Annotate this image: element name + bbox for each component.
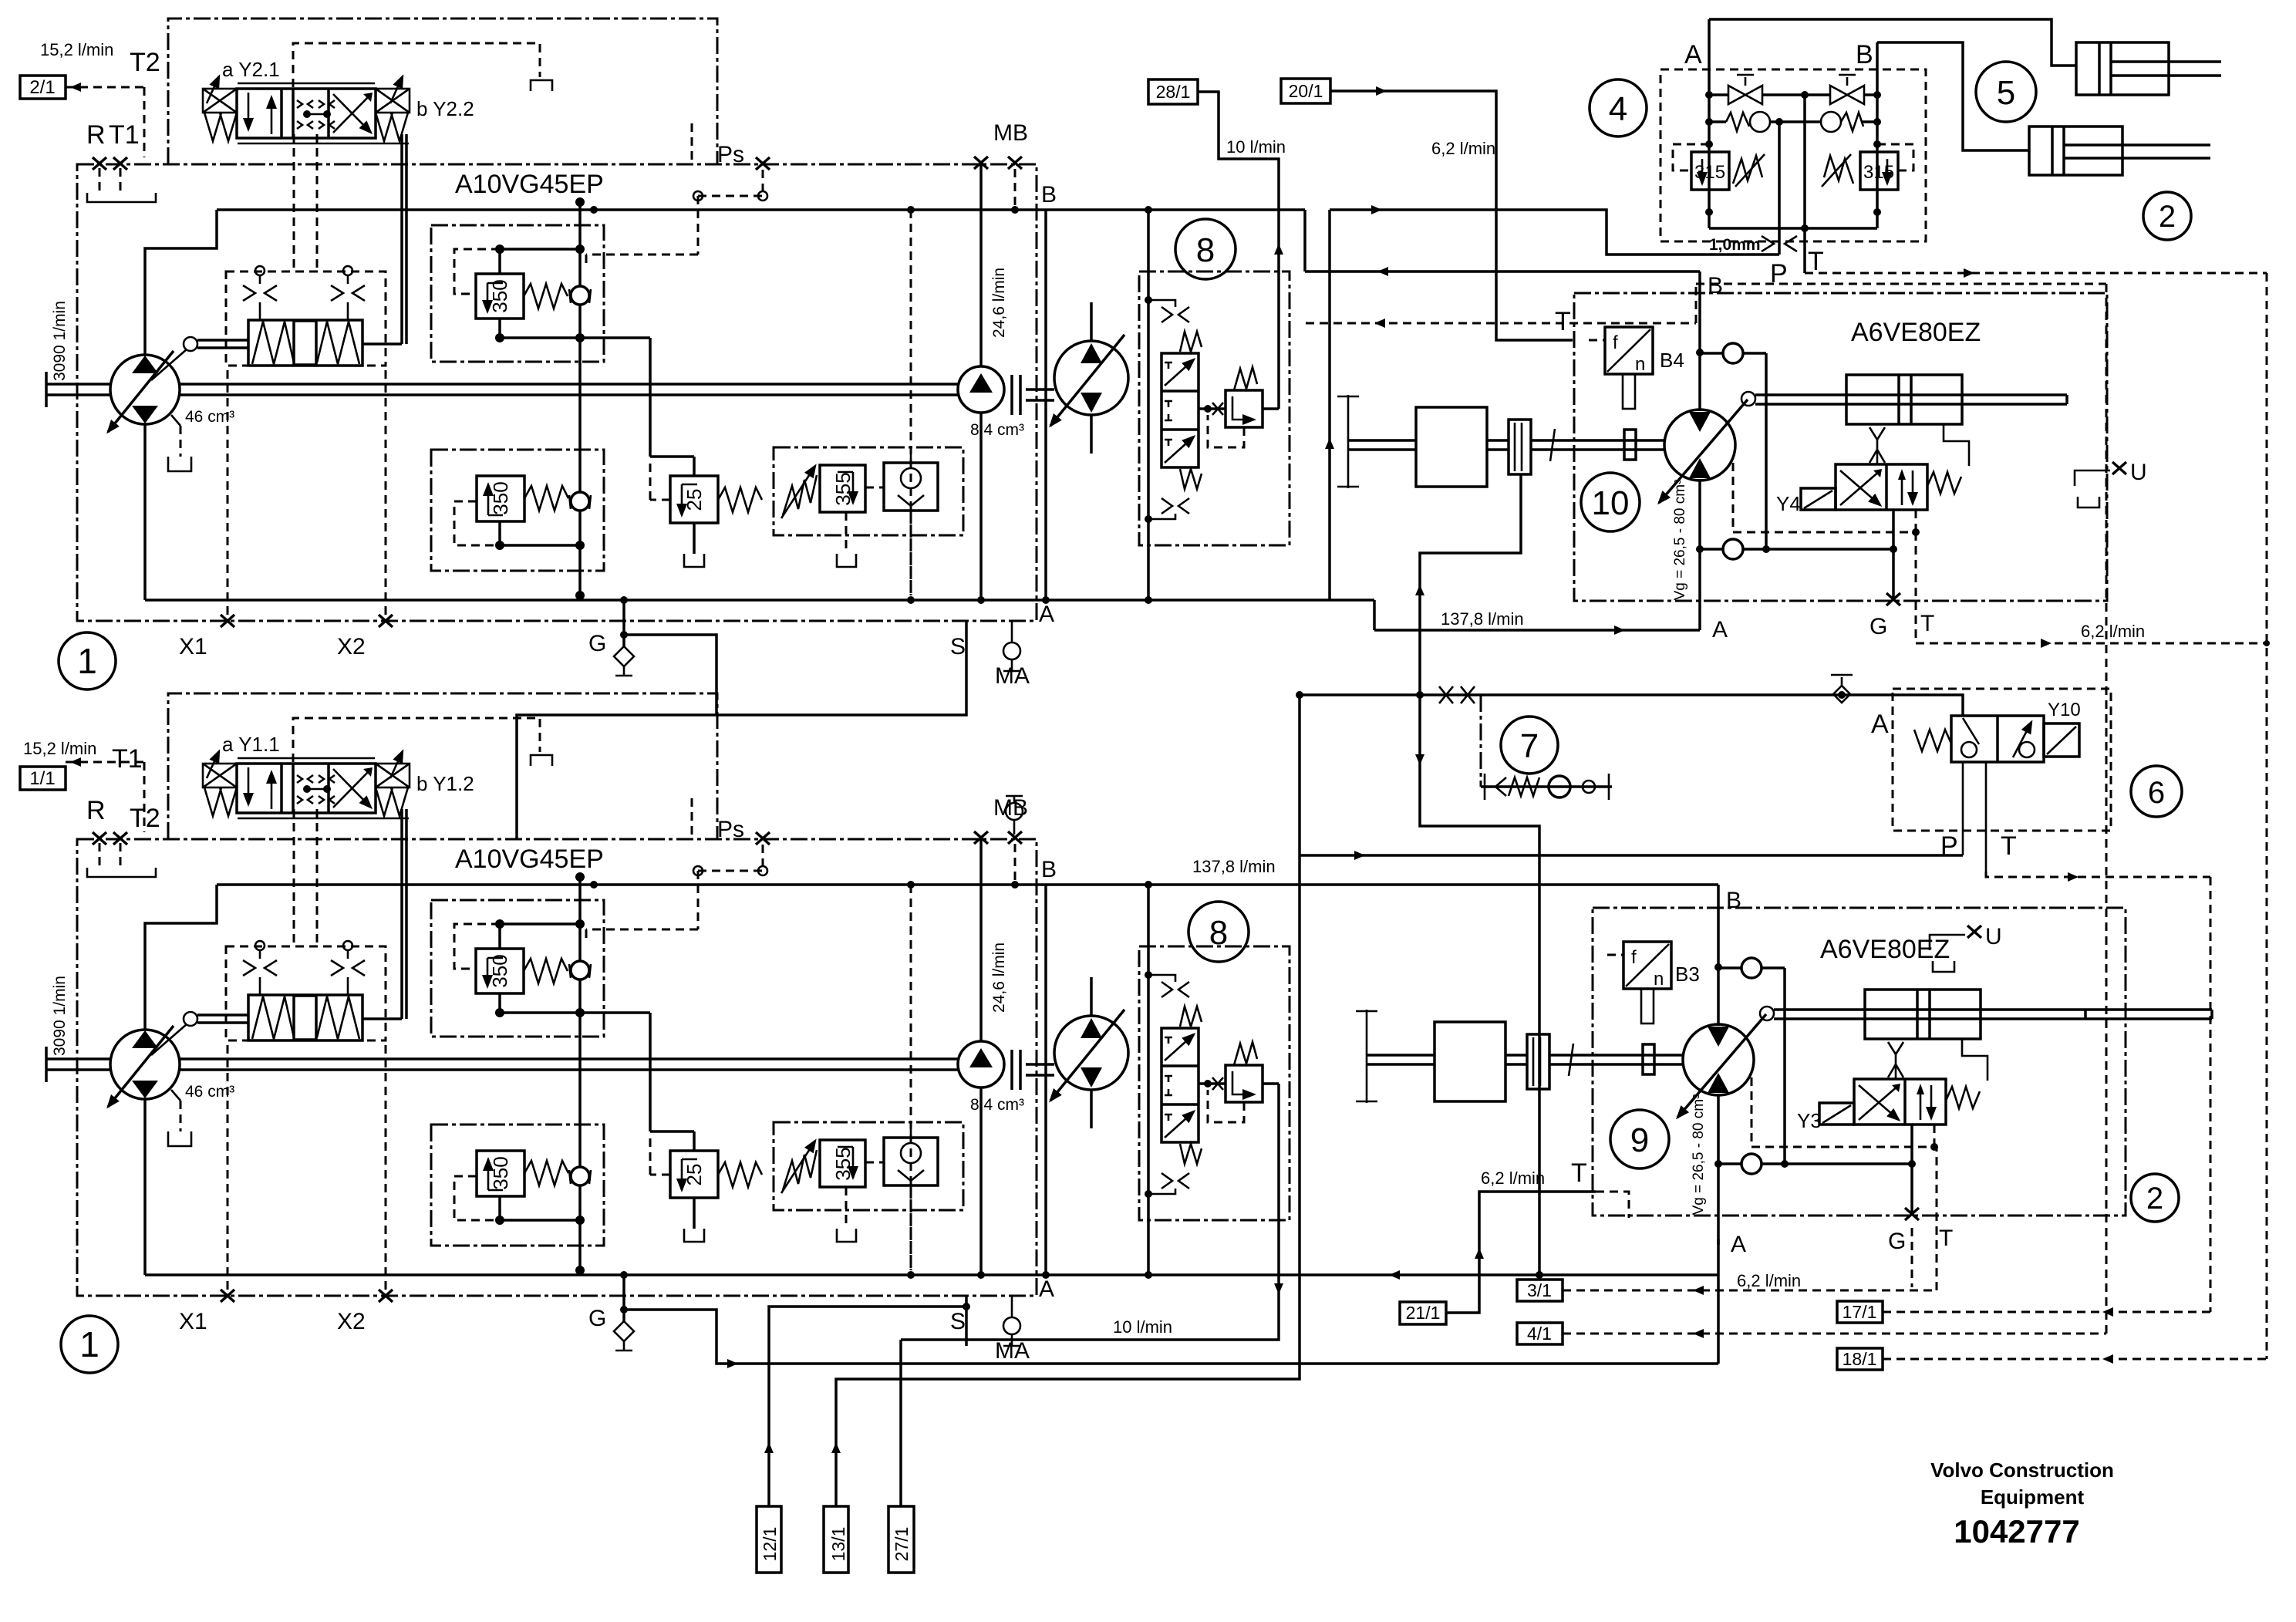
block4 row1 line [1709, 93, 1877, 96]
block8 dash box lower [1139, 946, 1290, 1220]
relief row riser dashed [1480, 695, 1482, 787]
svg-text:T1: T1 [112, 744, 143, 774]
block8 lower mid dot [1204, 1080, 1212, 1088]
svg-text:10 l/min: 10 l/min [1113, 1317, 1172, 1337]
Y10 valve divider [1996, 716, 1999, 762]
brake cylinder 1 [2076, 42, 2169, 95]
connector box 28/1 [1148, 79, 1198, 104]
arrow on P return [1354, 851, 1365, 860]
svg-text:T1: T1 [109, 120, 140, 150]
Y10 right arrow [2013, 722, 2031, 757]
flushing drop arrow [1415, 754, 1424, 765]
connector box 3/1 [1517, 1280, 1563, 1301]
G drain dashed bottom motor [1911, 1228, 1913, 1287]
shutoff valve right [1830, 75, 1864, 104]
wire P supply branch [1330, 210, 1779, 255]
arrow on 20/1 wire [1376, 86, 1387, 96]
relief row end tick [1484, 774, 1486, 800]
block8 throttle top [1161, 307, 1189, 322]
Y10 left seat circle [1961, 742, 1977, 757]
block8 lower reducer arrow [1232, 1071, 1254, 1094]
port U cross [2112, 462, 2126, 474]
block4 A riser [1708, 19, 1711, 190]
relief 315 right spring [1824, 156, 1853, 184]
block4 row2 dots [1705, 118, 1713, 126]
block8 lower bottom spring [1180, 1144, 1202, 1164]
relief 315 left pilot dash [1673, 144, 1709, 170]
block4 bottom dots [1705, 208, 1713, 216]
svg-text:2/1: 2/1 [29, 77, 55, 98]
18/1 dashed wire [1883, 1358, 2267, 1361]
Y10 valve body [1951, 716, 2044, 762]
svg-text:18/1: 18/1 [1843, 1349, 1877, 1369]
Y10 spring left [1914, 730, 1951, 751]
riser 13/1 to P return [836, 855, 1300, 1506]
block8 lower dots [1145, 971, 1152, 979]
brake cylinder 2 [2029, 126, 2122, 175]
item circle 4 [1590, 79, 1647, 137]
U drain bracket [1933, 961, 1954, 972]
svg-text:12/1: 12/1 [760, 1527, 780, 1562]
svg-text:Y3: Y3 [1797, 1109, 1822, 1132]
svg-text:6,2 l/min: 6,2 l/min [1737, 1271, 1801, 1290]
block8 lower valve dividers [1161, 1066, 1199, 1104]
block8 top spring [1180, 332, 1202, 352]
relief 315 right spring arrow [1822, 154, 1851, 187]
block4 A to cylinder1 [1709, 19, 2076, 66]
svg-text:T2: T2 [130, 804, 160, 833]
block8 reducer out [1263, 407, 1279, 410]
relief 315 left spring [1733, 156, 1762, 184]
block8 throttle top stub [1148, 300, 1175, 307]
arrow up on 10 l/min wire [1274, 244, 1283, 255]
svg-text:R: R [86, 796, 106, 825]
lower A riser to motor2 [1717, 1239, 1720, 1275]
Y10 right seat circle [2019, 742, 2035, 757]
junction dot drains [2264, 640, 2270, 646]
svg-text:1: 1 [77, 641, 97, 681]
check row line [1709, 120, 1877, 123]
block8 reducer box [1226, 390, 1263, 427]
lower A bus dots [1145, 1271, 1152, 1279]
riser from A bus with arrow [1328, 210, 1331, 600]
pump1 S line [517, 671, 966, 839]
relief row small diamond [1583, 781, 1595, 793]
svg-text:7: 7 [1520, 727, 1539, 765]
relief row spring [1509, 777, 1539, 796]
block8 lower valve body [1161, 1028, 1199, 1142]
B bus extension upper pump [991, 208, 1305, 211]
block8 mid port line [1199, 407, 1226, 410]
Y10 P stem [1962, 762, 1964, 855]
svg-text:2: 2 [2146, 1182, 2163, 1216]
flushing drop line [1420, 695, 1539, 1275]
flushing branch from coupling [1420, 474, 1521, 695]
svg-text:315: 315 [1694, 162, 1725, 183]
svg-text:6,2 l/min: 6,2 l/min [1481, 1168, 1545, 1188]
relief 315 left top dot [1705, 140, 1713, 148]
item circle 2 [2143, 192, 2191, 240]
block8 lower valve arrows [1165, 1034, 1194, 1061]
pump unit 1 (upper A10VG45EP) [46, 19, 1128, 689]
cylinder1 rod [2111, 62, 2221, 76]
collector G dot [620, 1306, 628, 1313]
connector box 17/1 [1837, 1301, 1883, 1323]
svg-text:A: A [1871, 710, 1889, 739]
svg-text:T2: T2 [130, 48, 160, 77]
check row left spring [1726, 113, 1749, 131]
block8 throttle bottom [1161, 498, 1189, 514]
relief 315 right box [1860, 152, 1898, 190]
lower B bus extension [991, 885, 1718, 886]
connector box 12/1 [757, 1506, 781, 1573]
pump unit 2 (lower A10VG45EP) [46, 693, 1128, 1364]
relief row check circle [1549, 776, 1570, 798]
wire 10 l/min from 28/1 [1198, 92, 1279, 409]
block8 lower valve T marks [1165, 1037, 1172, 1121]
arrow on lower A bus [1389, 1270, 1400, 1280]
arrow on 3/1 wire [1693, 1286, 1704, 1295]
arrow 13/1 [831, 1442, 841, 1453]
check row left circle [1750, 112, 1770, 132]
block8 lower reducer pilot dash [1208, 1090, 1244, 1122]
svg-text:20/1: 20/1 [1289, 81, 1323, 101]
arrow up on riser [1325, 438, 1334, 449]
arrow on B motor wire [1377, 267, 1388, 276]
arrow on block4 T drain [1964, 268, 1974, 278]
check row right spring [1841, 113, 1863, 131]
block4 B riser [1876, 42, 1879, 190]
item circle 5 [1976, 62, 2036, 122]
svg-text:9: 9 [1630, 1121, 1649, 1159]
item circle 7 [1501, 717, 1558, 774]
relief row line [1481, 785, 1612, 788]
S junction dot [963, 1303, 970, 1310]
arrow on P branch [1371, 205, 1382, 214]
inline cross pair [1439, 686, 1475, 703]
connector box 4/1 [1517, 1323, 1563, 1344]
servo rod extension motor2 [2085, 1010, 2212, 1019]
gauge diamond on A tap [1833, 686, 1850, 703]
svg-text:U: U [2130, 460, 2147, 485]
relief 315 left spring arrow [1735, 154, 1765, 187]
block4 T riser [1803, 95, 1806, 273]
svg-text:8: 8 [1209, 914, 1228, 952]
block6 T drain dashed [1986, 872, 2210, 1312]
svg-text:U: U [1985, 924, 2002, 949]
svg-text:1042777: 1042777 [1954, 1513, 2080, 1549]
block8 lower throttle top [1148, 975, 1189, 997]
svg-text:10 l/min: 10 l/min [1226, 137, 1286, 157]
svg-text:Equipment: Equipment [1981, 1485, 2085, 1509]
motor unit 2 (lower A6VE80EZ) [1356, 886, 2126, 1257]
lower A bus extension [1064, 1273, 1718, 1276]
wire B to motor1 [1305, 270, 1700, 273]
block4 P riser [1778, 122, 1781, 255]
connector box 2/1 [20, 76, 66, 99]
Y10 T stem [1985, 762, 1988, 872]
block8 reducer pilot dash [1208, 415, 1244, 447]
block8 reducer spring [1234, 367, 1257, 390]
arrow down 10 l/min [1274, 1283, 1283, 1294]
shutoff valve left [1728, 75, 1762, 104]
svg-text:6,2 l/min: 6,2 l/min [1431, 139, 1495, 158]
svg-text:P: P [1770, 259, 1788, 288]
svg-text:B: B [1856, 40, 1873, 69]
svg-text:15,2 l/min: 15,2 l/min [23, 739, 96, 758]
6,2 l/min drain motor1 [1916, 532, 2267, 643]
dashed T drain line [1306, 284, 2106, 323]
relief 315 right top dot [1873, 140, 1881, 148]
svg-text:1/1: 1/1 [29, 768, 55, 789]
svg-text:a Y2.1: a Y2.1 [222, 58, 280, 81]
svg-text:137,8 l/min: 137,8 l/min [1441, 609, 1524, 629]
item circle 8 [1175, 219, 1236, 279]
Y10 left seat line [1963, 718, 1979, 744]
cylinder2 rod [2064, 145, 2210, 158]
connector box 13/1 [824, 1506, 848, 1573]
svg-text:4/1: 4/1 [1527, 1324, 1552, 1344]
svg-text:Y10: Y10 [2048, 700, 2081, 720]
arrow on block6 drain [2068, 872, 2079, 882]
A bus extension upper pump [1064, 600, 1700, 630]
Y10 solenoid diagonal [2047, 727, 2076, 754]
17/1 dashed wire [1883, 1311, 2210, 1313]
svg-text:B4: B4 [1660, 349, 1684, 372]
item circle 1 [59, 632, 116, 690]
block4 bottom link [1709, 190, 1877, 228]
block8 lower throttle bottom [1148, 1173, 1189, 1194]
block8 valve T marks [1165, 363, 1172, 446]
check row right circle [1821, 112, 1841, 132]
svg-text:13/1: 13/1 [828, 1527, 848, 1562]
svg-text:T: T [1571, 1158, 1587, 1188]
relief 315 right arrow [1886, 159, 1889, 184]
svg-text:T: T [2001, 831, 2017, 861]
block8 valve body [1161, 353, 1199, 467]
block8 lower reducer out [1263, 1082, 1279, 1085]
motor unit 1 (upper A6VE80EZ) [1337, 271, 2107, 642]
svg-text:28/1: 28/1 [1156, 82, 1191, 102]
cylinder1 piston [2099, 42, 2111, 95]
block8 lower reducer spring [1234, 1042, 1257, 1065]
pump1 G tail [624, 635, 716, 715]
svg-text:T: T [1808, 247, 1824, 276]
svg-text:5: 5 [1997, 74, 2015, 112]
item circle 10 [1581, 473, 1640, 531]
svg-text:Y4: Y4 [1776, 492, 1801, 515]
wire 21/1 to T motor2 [1445, 1192, 1596, 1313]
connector box 21/1 [1400, 1302, 1446, 1324]
relief 315 left arrow [1701, 159, 1704, 184]
block8 line dots [1145, 296, 1152, 304]
block8 lower X throttle [1212, 1077, 1223, 1090]
item circle 9 [1610, 1110, 1669, 1168]
relief row chevron [1495, 777, 1506, 796]
arrow on 4/1 wire [1693, 1329, 1704, 1338]
block8 throttle bottom stub [1148, 514, 1175, 519]
riser 12/1 to S [769, 1307, 966, 1506]
block8 mid dot [1204, 405, 1212, 413]
arrow 12/1 [764, 1442, 774, 1453]
arrow on 17/1 wire [2102, 1307, 2113, 1317]
block4 row1 dots [1705, 91, 1713, 99]
cylinder2 piston [2052, 126, 2064, 175]
block8 valve arrows [1165, 359, 1194, 386]
block8 supply line [1147, 210, 1150, 600]
3/1 dashed wire [1563, 1147, 1937, 1290]
svg-text:a Y1.1: a Y1.1 [222, 733, 280, 756]
svg-text:8: 8 [1196, 231, 1215, 269]
svg-text:4: 4 [1609, 90, 1627, 128]
connector box 1/1 [20, 767, 66, 790]
svg-text:6: 6 [2148, 776, 2165, 810]
item circle 6 [2131, 766, 2182, 817]
arrow on 6,2 drain [2041, 639, 2052, 648]
item circle 1 lower [61, 1316, 118, 1373]
orifice chevrons [1762, 236, 1797, 251]
block8 lower mid port [1199, 1082, 1226, 1085]
block4 dashed box [1660, 69, 1926, 241]
MB gauge diamond [1006, 803, 1023, 820]
block8 lower reducer box [1226, 1065, 1263, 1102]
relief 315 left box [1691, 152, 1729, 190]
svg-text:1: 1 [79, 1324, 99, 1364]
P return line [1300, 695, 1963, 855]
block4 T drain dashed [1805, 273, 2267, 1359]
B step down to motor feed [1303, 210, 1306, 271]
T dashed bracket motor2 [1596, 1192, 1629, 1218]
wire 6,2 l/min from 20/1 [1330, 91, 1573, 340]
connector box 18/1 [1837, 1348, 1883, 1370]
port U cross [1967, 926, 1981, 938]
A tap junction dots [1416, 691, 1424, 699]
MB gauge stem [1006, 796, 1023, 835]
block8 lower top spring [1180, 1007, 1202, 1027]
Y10 inlet bend [1893, 695, 1963, 716]
svg-text:A6VE80EZ: A6VE80EZ [1851, 318, 1981, 347]
B bus junction dot block8 [1145, 206, 1152, 214]
svg-text:15,2 l/min: 15,2 l/min [40, 40, 113, 59]
svg-text:2: 2 [2159, 200, 2176, 234]
return collector from G [625, 1275, 1718, 1364]
flushing drop dot [1536, 1271, 1543, 1279]
svg-text:B3: B3 [1675, 963, 1700, 986]
svg-text:21/1: 21/1 [1406, 1303, 1441, 1323]
svg-text:b Y2.2: b Y2.2 [416, 97, 474, 120]
svg-text:3/1: 3/1 [1527, 1280, 1552, 1300]
arrow on return collector [727, 1359, 738, 1368]
block8 dash box [1139, 271, 1290, 545]
block8 valve dividers [1161, 391, 1199, 430]
Y10 solenoid [2044, 723, 2079, 757]
gauge tee on A tap [1831, 675, 1853, 686]
arrow on T drain [1374, 319, 1385, 328]
svg-text:1,0mm: 1,0mm [1709, 236, 1761, 254]
A tap line [1300, 693, 1893, 696]
item circle 2 lower [2131, 1174, 2179, 1222]
pump1 G tail dot [620, 631, 628, 639]
relief 315 right pilot dash [1877, 144, 1913, 170]
svg-text:10: 10 [1592, 484, 1630, 522]
item circle 8 lower [1188, 902, 1249, 962]
arrow on 18/1 wire [2102, 1354, 2113, 1364]
svg-text:17/1: 17/1 [1843, 1302, 1877, 1322]
svg-text:6,2 l/min: 6,2 l/min [2081, 622, 2145, 641]
block6 dashed box [1893, 689, 2111, 831]
svg-text:T: T [1555, 307, 1571, 336]
svg-text:137,8 l/min: 137,8 l/min [1192, 857, 1276, 876]
block8 supply line lower [1147, 885, 1150, 1275]
block8 bottom spring [1180, 469, 1202, 489]
svg-text:R: R [86, 120, 106, 150]
connector box 27/1 [888, 1506, 914, 1573]
U drain bracket [2078, 497, 2099, 508]
svg-text:315: 315 [1863, 162, 1894, 183]
svg-text:A: A [1684, 40, 1702, 69]
4/1 dashed wire [1563, 284, 2106, 1334]
arrow up on 21/1 wire [1475, 1248, 1484, 1259]
U bracket [2075, 470, 2110, 486]
block8 X throttle [1212, 403, 1223, 415]
relief row end tick right [1608, 774, 1610, 800]
U bracket [1930, 935, 1965, 950]
svg-text:27/1: 27/1 [892, 1527, 912, 1562]
block8 reducer arrow [1232, 396, 1254, 420]
block4 B to cylinder2 [1877, 42, 2029, 150]
10 l/min lower line [901, 1084, 1279, 1340]
riser 27/1 [899, 1340, 902, 1506]
arrow on 137,8 wire [1614, 626, 1625, 635]
svg-text:Volvo Construction: Volvo Construction [1930, 1458, 2114, 1482]
svg-text:b Y1.2: b Y1.2 [416, 772, 474, 795]
flushing riser arrow up [1415, 585, 1424, 595]
connector box 20/1 [1281, 79, 1330, 103]
